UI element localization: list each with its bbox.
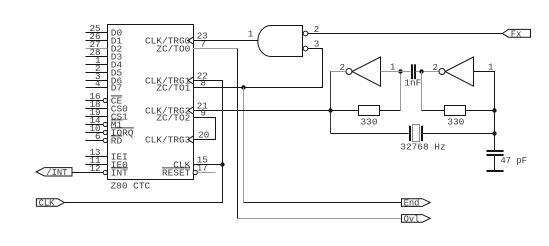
capacitor C2 plates bbox=[487, 150, 504, 156]
svg-text:Ovl: Ovl bbox=[404, 214, 420, 224]
wire ZC/TO0 pin7 horizontal (gray) bbox=[193, 48, 238, 50]
pin 8 ZC/TO1 label bbox=[156, 78, 206, 94]
capacitor C1 plates bbox=[411, 64, 416, 79]
junction crystal right bbox=[492, 131, 496, 135]
crystal Q1 value 32768 Hz bbox=[400, 142, 445, 153]
wire CLK/TRG1 pin22 down to CLK node bbox=[193, 81, 223, 165]
wire Ovl horizontal (gray) bbox=[238, 218, 402, 220]
svg-text:6: 6 bbox=[95, 131, 101, 142]
wire /INT port to pin 12 bbox=[72, 172, 103, 174]
wire crystal left bbox=[331, 133, 409, 135]
svg-text:RD: RD bbox=[111, 136, 123, 147]
wire ZC/TO0 vertical down bbox=[237, 49, 239, 219]
resistor R1 value 330 bbox=[361, 116, 378, 127]
wire ZC/TO1 pin8 to gate pin3 vertical bbox=[193, 49, 323, 88]
wire R1 right bbox=[380, 110, 401, 112]
svg-text:D7: D7 bbox=[111, 83, 122, 94]
gate pin 3 bubble bbox=[303, 46, 308, 51]
pin 4 D7 bbox=[86, 78, 123, 94]
svg-text:4: 4 bbox=[95, 78, 101, 89]
svg-text:1nF: 1nF bbox=[404, 77, 421, 88]
gate pin 1 label bbox=[248, 28, 254, 39]
svg-text:9: 9 bbox=[200, 108, 206, 119]
inverter U3A triangle bbox=[352, 57, 381, 86]
svg-text:1: 1 bbox=[488, 61, 494, 72]
pin 1 D4 bbox=[86, 55, 123, 71]
pin 27 D2 bbox=[86, 39, 123, 55]
wire inverter1 output to node (gray) bbox=[330, 71, 346, 73]
svg-text:/INT: /INT bbox=[46, 168, 67, 178]
pin 3 D6 bbox=[86, 71, 123, 87]
wire CLK/TRG0 pin23 to gate input bbox=[193, 40, 259, 42]
svg-text:20: 20 bbox=[198, 130, 209, 141]
wire End horizontal bbox=[244, 202, 402, 204]
inverter U3B triangle bbox=[445, 57, 474, 86]
wire R1 left bbox=[331, 110, 359, 112]
svg-text:8: 8 bbox=[200, 78, 206, 89]
junction CLK node bbox=[220, 162, 224, 166]
wire gate pin2 to Fx port bbox=[308, 33, 503, 35]
pin 7 ZC/TO0 label bbox=[156, 39, 206, 55]
pin 28 D3 bbox=[86, 47, 123, 63]
ground symbol bbox=[487, 170, 504, 172]
wire inverter2 input bbox=[474, 72, 495, 151]
svg-text:CLK: CLK bbox=[39, 199, 56, 209]
svg-text:330: 330 bbox=[447, 116, 464, 127]
pin 19 CS1 bbox=[86, 107, 129, 123]
wire crystal right bbox=[423, 133, 494, 135]
svg-text:1: 1 bbox=[248, 28, 254, 39]
junction R2 right bbox=[492, 108, 496, 112]
inverter U3B output bubble bbox=[439, 69, 445, 75]
resistor R1 body bbox=[359, 106, 380, 116]
crystal Q1 body bbox=[413, 125, 420, 142]
pin 15 CLK label bbox=[173, 155, 208, 171]
svg-text:End: End bbox=[404, 199, 420, 209]
capacitor C1 value 1nF bbox=[404, 77, 421, 88]
svg-text:Fx: Fx bbox=[511, 30, 522, 40]
inverter U3A pin1 label bbox=[390, 61, 396, 72]
pin 13 IEI bbox=[86, 147, 128, 163]
svg-text:47 pF: 47 pF bbox=[501, 156, 527, 166]
svg-text:ZC/TO2: ZC/TO2 bbox=[156, 113, 190, 124]
svg-text:ZC/TO1: ZC/TO1 bbox=[156, 83, 190, 94]
wire inverter2 output node vertical (gray) bbox=[421, 72, 423, 111]
inverter U3A pin2 label bbox=[339, 62, 345, 73]
svg-text:330: 330 bbox=[361, 116, 378, 127]
svg-text:Z80 CTC: Z80 CTC bbox=[111, 181, 151, 192]
pin 20 CLK/TRG3 label bbox=[145, 130, 209, 146]
pin 18 CS0 bbox=[86, 99, 129, 115]
svg-text:ZC/TO0: ZC/TO0 bbox=[156, 44, 190, 55]
svg-text:1: 1 bbox=[390, 61, 396, 72]
wire C1 right to inverter2 output (gray) bbox=[416, 71, 439, 73]
pin 10 IORQ bbox=[86, 123, 134, 139]
svg-text:32768 Hz: 32768 Hz bbox=[400, 142, 445, 153]
junction inverter2 output node bbox=[419, 69, 423, 73]
pin 26 D1 bbox=[86, 31, 123, 47]
wire R2 left bbox=[422, 110, 445, 112]
inverter U3A output bubble bbox=[346, 69, 352, 75]
gate pin 3 label bbox=[314, 38, 320, 49]
wire CLK pin15 to junction bbox=[193, 164, 223, 166]
resistor R2 value 330 bbox=[447, 116, 464, 127]
wire CLK/TRG2 pin21 to oscillator node bbox=[193, 110, 331, 112]
pin 2 D5 bbox=[86, 63, 123, 79]
IC name label Z80 CTC bbox=[111, 181, 151, 192]
wire End branch vertical (gray) bbox=[243, 88, 245, 203]
pin 9 ZC/TO2 label bbox=[156, 108, 206, 124]
pin 25 D0 bbox=[86, 23, 123, 39]
wire ZC/TO2 to CLK/TRG3 loop bbox=[193, 118, 216, 140]
pin 11 IE0 bbox=[86, 155, 129, 171]
svg-text:INT: INT bbox=[111, 168, 128, 179]
inverter U3B pin2 label bbox=[432, 62, 438, 73]
crystal Q1 plates bbox=[409, 126, 423, 141]
svg-text:CLK/TRG3: CLK/TRG3 bbox=[145, 135, 191, 146]
wire gate pin3 stub bbox=[308, 48, 323, 50]
port Ovl bbox=[402, 214, 431, 224]
wire R1 right vertical up (gray) bbox=[400, 72, 402, 111]
pin 16 CE bbox=[86, 91, 123, 107]
capacitor C2 value 47 pF bbox=[501, 156, 527, 166]
inverter U3B pin1 label bbox=[488, 61, 494, 72]
gate U2 (AND shape, mirrored, inverted outputs) bbox=[258, 26, 303, 57]
pin 14 M1 bbox=[86, 115, 123, 131]
pin 21 CLK/TRG2 label bbox=[145, 101, 208, 117]
wire oscillator node vertical bbox=[330, 72, 332, 134]
junction ZC/TO1 branch bbox=[241, 85, 245, 89]
port /INT bbox=[36, 168, 72, 179]
pin 12 INT bbox=[86, 163, 129, 179]
gate pin 2 bubble bbox=[303, 31, 308, 36]
svg-text:RESET: RESET bbox=[162, 168, 191, 179]
pin 17 RESET bubble and stub bbox=[193, 170, 215, 174]
pin 6 RD bbox=[86, 131, 123, 147]
pin 17 RESET label bbox=[162, 163, 208, 179]
resistor R2 body bbox=[445, 106, 466, 116]
wire C2 to ground bbox=[494, 156, 496, 170]
pin 23 CLK/TRG0 label bbox=[145, 31, 208, 47]
wire inverter1 input row (gray) bbox=[381, 71, 411, 73]
junction inverter1 input node bbox=[398, 69, 402, 73]
junction oscillator node / R1 / pin21 bbox=[328, 108, 332, 112]
wire R2 right bbox=[466, 110, 495, 112]
wire CLK node down to CLK port bbox=[65, 165, 223, 203]
gate pin 2 label bbox=[314, 24, 320, 35]
port CLK bbox=[36, 199, 64, 209]
IC U1 Z80 CTC body bbox=[108, 25, 194, 180]
pin 22 CLK/TRG1 label bbox=[145, 71, 208, 87]
svg-text:3: 3 bbox=[314, 38, 320, 49]
svg-text:2: 2 bbox=[432, 62, 438, 73]
port Fx bbox=[503, 29, 531, 39]
port End bbox=[402, 199, 431, 209]
